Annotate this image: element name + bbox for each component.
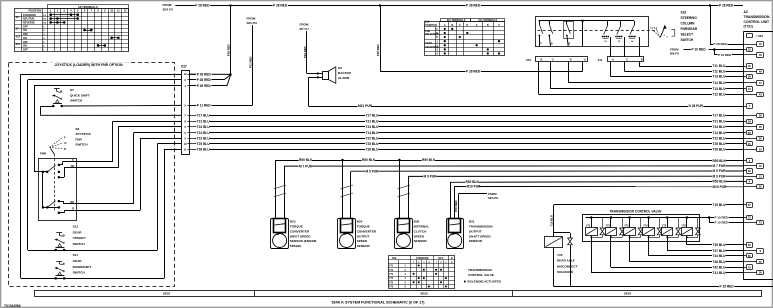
switch S7 quick shift	[54, 88, 60, 90]
svg-text:Y71: Y71	[389, 266, 394, 268]
svg-text:SE22: SE22	[163, 292, 171, 296]
TCU pin 9	[743, 250, 757, 252]
svg-text:SOLENOID: SOLENOID	[557, 270, 574, 274]
svg-text:SWITCH: SWITCH	[73, 242, 86, 246]
svg-text:ON: ON	[23, 37, 27, 40]
svg-text:REVERSE: REVERSE	[23, 22, 35, 25]
svg-text:T25 BLU: T25 BLU	[366, 142, 380, 146]
wire S11 to X27 pin 11	[164, 149, 166, 278]
junction R50 B30	[398, 159, 401, 162]
S19 common bus	[539, 20, 634, 22]
wire P28 RED to X10-A	[380, 71, 583, 73]
svg-text:Y75: Y75	[662, 224, 667, 227]
wire P45 RED from B21 to SE5 PH	[458, 194, 460, 219]
svg-text:T13 BLU: T13 BLU	[713, 75, 727, 79]
svg-text:H3: H3	[338, 66, 342, 70]
svg-text:SPEED): SPEED)	[290, 244, 302, 248]
solenoid Y73	[628, 216, 631, 219]
wire T22 BLU X27 to TCU	[195, 138, 743, 140]
wire S8 R to X27 pin 8	[77, 210, 140, 212]
svg-text:JOYSTICK (LOADER) WITH FNR OPT: JOYSTICK (LOADER) WITH FNR OPTION	[54, 63, 123, 67]
svg-text:TRANSMISSION CONTROL VALVE: TRANSMISSION CONTROL VALVE	[609, 209, 661, 213]
svg-text:T17 BLU: T17 BLU	[197, 114, 211, 118]
svg-text:DISCONNECT: DISCONNECT	[557, 264, 578, 268]
connector X27	[182, 71, 190, 155]
wire Y74 output	[648, 238, 650, 256]
wire R50 BLK sensor ground bus	[275, 160, 277, 219]
switch S19 box	[536, 17, 649, 47]
wire R50 BLK from B21	[450, 182, 452, 219]
svg-text:SELECT: SELECT	[681, 33, 694, 37]
table S8 contact dots	[51, 14, 78, 16]
svg-text:R50 BLK: R50 BLK	[422, 158, 436, 162]
svg-text:GEAR: GEAR	[425, 42, 432, 45]
svg-text:P28 RED: P28 RED	[227, 44, 231, 56]
TCU pin 70	[743, 267, 746, 269]
switch S12 gear upshift	[56, 232, 62, 234]
wire P28 RED feed to FNR switch (X27 pin 1)	[34, 85, 181, 87]
svg-text:M31 PUR: M31 PUR	[358, 104, 373, 108]
svg-text:TORQUE: TORQUE	[290, 225, 303, 229]
wire T25 BLU X27 to TCU	[195, 143, 743, 145]
svg-text:S11: S11	[73, 253, 79, 257]
svg-text:Y72: Y72	[606, 224, 611, 227]
TCU pin 43	[743, 94, 757, 96]
svg-text:T25 BLU: T25 BLU	[713, 142, 727, 146]
svg-text:Y74: Y74	[389, 277, 394, 280]
svg-text:P28 RED: P28 RED	[376, 44, 380, 56]
svg-text:Y73: Y73	[389, 274, 394, 276]
svg-text:SWITCH: SWITCH	[681, 38, 694, 42]
svg-text:A2: A2	[744, 10, 748, 14]
svg-text:M7 FU: M7 FU	[300, 27, 309, 31]
svg-text:P 28 RED: P 28 RED	[719, 4, 734, 8]
svg-text:S11: S11	[16, 43, 21, 46]
TCU pin 4	[743, 181, 746, 183]
svg-text:12: 12	[184, 72, 187, 76]
TCU pin 19	[743, 165, 757, 167]
svg-text:B21: B21	[469, 220, 475, 224]
svg-text:B: B	[451, 24, 453, 27]
S19 F contact	[539, 20, 541, 22]
svg-text:GEAR: GEAR	[73, 230, 83, 234]
svg-text:GEAR: GEAR	[73, 259, 83, 263]
svg-text:D: D	[466, 24, 468, 27]
TCU pin 63	[743, 244, 746, 246]
svg-text:CONVERTER: CONVERTER	[357, 229, 377, 233]
TCU pin 3	[743, 160, 746, 162]
svg-text:INPUT SPEED: INPUT SPEED	[290, 234, 311, 238]
TCU pin 12	[743, 176, 757, 178]
svg-text:T14 BLU: T14 BLU	[713, 131, 727, 135]
svg-text:T14 BLU: T14 BLU	[713, 81, 727, 85]
wire S11 row	[21, 278, 164, 280]
junction R50 B24	[341, 159, 344, 162]
svg-text:P 15 RED: P 15 RED	[715, 216, 729, 220]
svg-text:B30: B30	[414, 220, 420, 224]
svg-text:B23: B23	[290, 220, 296, 224]
svg-text:OUTPUT: OUTPUT	[469, 229, 482, 233]
svg-text:OFF: OFF	[23, 41, 28, 44]
wire S8 NF to X27 pin 3	[77, 167, 118, 169]
svg-text:T17 BLU: T17 BLU	[713, 114, 727, 118]
svg-text:M 5 PUR: M 5 PUR	[366, 169, 380, 173]
wire M10 PUR from B21	[454, 187, 456, 220]
svg-text:W9 FU: W9 FU	[670, 52, 679, 56]
svg-text:R50 BLK: R50 BLK	[466, 180, 480, 184]
svg-text:POSITION: POSITION	[29, 9, 42, 13]
svg-text:N 28 PUR: N 28 PUR	[689, 104, 704, 108]
svg-text:(TCU): (TCU)	[744, 25, 753, 29]
svg-text:P 28 RED: P 28 RED	[273, 4, 288, 8]
wire S12 row	[28, 250, 157, 252]
backup alarm H3 speaker	[323, 72, 329, 80]
svg-text:SE5 PH: SE5 PH	[488, 196, 498, 200]
svg-text:P 28 RED: P 28 RED	[197, 72, 212, 76]
svg-text:T24 BLU: T24 BLU	[197, 125, 211, 129]
wire M31 PUR alarm return	[309, 77, 323, 79]
wire T14 BLU X27 to TCU	[195, 132, 743, 134]
TCU pin 44	[743, 88, 746, 90]
wire T15 BLU TCU to Y20	[554, 204, 744, 206]
svg-text:T13 BLU: T13 BLU	[713, 87, 727, 91]
svg-text:NR: NR	[70, 201, 74, 204]
S19 R contact with detent box	[564, 22, 574, 39]
wire X11-C T11 BLU	[624, 62, 626, 72]
svg-text:Y71: Y71	[586, 224, 591, 227]
svg-text:P 10 RED: P 10 RED	[718, 53, 732, 57]
TCU pin 67	[743, 204, 746, 206]
svg-text:FNR: FNR	[425, 31, 430, 33]
svg-text:11: 11	[184, 147, 187, 151]
svg-text:X10: X10	[526, 58, 532, 62]
S19 gear contact 2	[620, 21, 622, 26]
S19 gear contact 3	[634, 21, 636, 26]
S19 common drop to X10-A	[581, 20, 584, 23]
svg-text:P 28 RED: P 28 RED	[197, 78, 212, 82]
svg-text:NEUTRAL: NEUTRAL	[23, 18, 35, 21]
svg-text:UPSHIFT: UPSHIFT	[73, 236, 86, 240]
svg-text:T11 BLU: T11 BLU	[713, 64, 726, 68]
svg-text:P 10 RED: P 10 RED	[692, 48, 707, 52]
svg-text:STEERING: STEERING	[681, 16, 698, 20]
svg-text:SE23: SE23	[420, 292, 428, 296]
svg-text:D: D	[570, 59, 572, 62]
svg-text:P 28 RED: P 28 RED	[195, 4, 210, 8]
wire Y76 output	[686, 238, 688, 245]
S19 gear contact 1	[607, 21, 609, 26]
switch S11 gear downshift	[56, 261, 62, 263]
svg-text:OUTPUT: OUTPUT	[357, 234, 370, 238]
svg-text:S12: S12	[16, 35, 21, 38]
svg-text:DOWNSHIFT: DOWNSHIFT	[73, 265, 92, 269]
svg-text:M 5 PUR: M 5 PUR	[713, 169, 727, 173]
svg-text:BACKUP: BACKUP	[338, 71, 351, 75]
svg-text:P 28 RED: P 28 RED	[197, 84, 212, 88]
svg-text:M 9 PUR: M 9 PUR	[713, 174, 727, 178]
svg-text:T24 BLU: T24 BLU	[713, 125, 727, 129]
svg-text:A: A	[584, 59, 586, 62]
svg-text:T47 BLU: T47 BLU	[713, 249, 727, 253]
junction P28 to X27	[229, 4, 232, 7]
svg-text:OFF: OFF	[23, 49, 28, 52]
svg-text:M10 PUR: M10 PUR	[713, 185, 728, 189]
svg-text:P 11 RED: P 11 RED	[197, 103, 212, 107]
svg-text:A: A	[476, 24, 478, 27]
svg-text:S12: S12	[73, 225, 79, 229]
table S19 contact dots	[444, 28, 446, 30]
svg-text:T15 BLU: T15 BLU	[550, 215, 554, 226]
solenoid Y75	[666, 216, 669, 219]
svg-text:ALARM: ALARM	[338, 76, 350, 80]
svg-text:R: R	[72, 207, 74, 210]
TCU pin 25	[743, 49, 746, 51]
svg-text:T22 BLU: T22 BLU	[197, 136, 211, 140]
wire M9 PUR from B30	[408, 176, 410, 219]
svg-text:TRANSMISSION: TRANSMISSION	[469, 225, 493, 229]
svg-text:P11 RED: P11 RED	[248, 56, 252, 68]
svg-text:Y75: Y75	[389, 282, 394, 284]
svg-text:N: N	[551, 42, 553, 45]
svg-text:T12 BLU: T12 BLU	[713, 93, 727, 97]
wire P28 RED feed to S11 (X27 pin 12)	[21, 74, 181, 76]
svg-text:FNR: FNR	[75, 137, 82, 141]
sensor B24 torque converter output speed	[338, 219, 356, 249]
svg-text:10: 10	[184, 142, 187, 146]
svg-text:M 7 PUR: M 7 PUR	[713, 164, 727, 168]
wire T21 BLU X27 to TCU	[195, 121, 743, 123]
svg-text:OFF: OFF	[23, 25, 28, 28]
svg-text:B: B	[487, 24, 489, 27]
wire P15 RED solenoid return	[554, 286, 773, 288]
TCU pin 55	[743, 138, 757, 140]
wire T26 BLU X27 to TCU	[195, 149, 743, 151]
TCU pin 52	[743, 186, 757, 188]
svg-text:C: C	[498, 24, 500, 27]
wire P28 RED feed to S12 (X27 pin 9)	[28, 79, 181, 81]
svg-text:T21 BLU: T21 BLU	[197, 119, 211, 123]
svg-text:P 15 RED: P 15 RED	[720, 285, 735, 289]
S8 common bus	[42, 172, 44, 208]
wire S7 to X27 pin 7 (T11)	[40, 106, 53, 108]
TCU pin 7	[743, 106, 746, 108]
solenoid Y20 rear axle disconnect	[554, 232, 570, 234]
TCU A2 outline bracket	[743, 31, 773, 33]
svg-text:REV: REV	[439, 257, 444, 260]
S8 neutral contact jog	[59, 177, 64, 179]
twisted pair marks B30	[397, 185, 410, 189]
svg-text:M 9 PUR: M 9 PUR	[424, 175, 438, 179]
wire Y72 output	[610, 238, 612, 268]
svg-text:Y76: Y76	[681, 224, 686, 227]
wire Y71 output	[591, 238, 593, 273]
svg-text:P 15 RED: P 15 RED	[715, 221, 729, 225]
svg-text:P45 RED: P45 RED	[454, 200, 458, 212]
wire P28 RED top bus	[175, 5, 743, 7]
svg-text:SELECTION: SELECTION	[425, 34, 438, 36]
svg-text:TRANSMISSION: TRANSMISSION	[468, 268, 492, 272]
svg-text:R50 BLK: R50 BLK	[713, 180, 727, 184]
svg-text:SWITCH: SWITCH	[75, 143, 88, 147]
svg-text:SENSOR: SENSOR	[469, 239, 483, 243]
svg-text:SOL: SOL	[392, 257, 397, 260]
TCU pin 48	[743, 54, 757, 56]
svg-text:C: C	[552, 59, 554, 62]
svg-text:C: C	[626, 59, 628, 62]
solenoid Y74	[647, 216, 650, 219]
wire P11 RED to X27 pin 2	[252, 25, 254, 105]
TCU pin 36	[743, 272, 757, 274]
svg-text:S7: S7	[70, 88, 74, 92]
svg-text:TX1024586: TX1024586	[4, 304, 21, 308]
svg-text:FORWARD: FORWARD	[23, 14, 36, 17]
wire P28 RED to TCU pin	[710, 44, 743, 46]
svg-text:T22 BLU: T22 BLU	[366, 136, 380, 140]
svg-text:QUICK SHIFT: QUICK SHIFT	[70, 93, 90, 97]
sensor B23 torque converter input speed	[271, 219, 289, 249]
wire Y73 output	[629, 238, 631, 262]
wire S7 to X27 pin 2	[62, 104, 182, 107]
S8 forward contact	[43, 171, 47, 173]
sensor B30 internal clutch speed	[395, 219, 413, 249]
svg-text:R: R	[569, 42, 571, 45]
svg-text:T17 BLU: T17 BLU	[366, 114, 380, 118]
wire S12 to X27 pin 10	[157, 144, 159, 250]
solenoid Y72	[610, 216, 613, 219]
svg-text:SPEED: SPEED	[414, 234, 425, 238]
TCU pin 21	[743, 143, 746, 145]
junction P28 to S19 switch	[379, 4, 382, 7]
svg-text:P 28 RED: P 28 RED	[714, 42, 728, 46]
S19 mechanical dashed link	[538, 30, 658, 32]
svg-text:B24: B24	[357, 220, 363, 224]
svg-text:SELECTION: SELECTION	[425, 47, 438, 49]
svg-text:A: A	[612, 59, 614, 62]
svg-text:TORQUE: TORQUE	[357, 225, 370, 229]
svg-text:R50 BLK: R50 BLK	[713, 159, 727, 163]
svg-text:S8: S8	[75, 127, 79, 131]
TCU pin 72	[743, 217, 746, 219]
TCU pin 29	[743, 121, 746, 123]
svg-text:SWITCH: SWITCH	[73, 271, 86, 275]
svg-text:M10 PUR: M10 PUR	[467, 185, 482, 189]
svg-text:POSITION: POSITION	[425, 24, 437, 27]
wire X10-B T12 BLU	[538, 62, 540, 95]
svg-text:SENSOR: SENSOR	[414, 239, 428, 243]
wire M7 PUR from B23	[284, 166, 286, 219]
svg-text:T15 BLU: T15 BLU	[713, 203, 727, 207]
svg-text:REAR AXLE: REAR AXLE	[557, 259, 575, 263]
wire S8 NR to X27 pin 5	[77, 203, 134, 205]
solenoid Y76	[686, 216, 689, 219]
svg-text:T25 BLU: T25 BLU	[197, 142, 211, 146]
svg-text:T26 BLU: T26 BLU	[713, 147, 727, 151]
svg-text:R: R	[64, 147, 66, 151]
TCU pin 50	[743, 115, 757, 117]
TCU pin 28	[743, 76, 746, 78]
svg-text:T46 BLU: T46 BLU	[713, 260, 727, 264]
svg-text:ON: ON	[23, 45, 27, 48]
wire P23 RED to alarm	[306, 31, 308, 74]
svg-text:P 28 RED: P 28 RED	[466, 4, 481, 8]
svg-text:SE24: SE24	[624, 292, 632, 296]
svg-text:T44 BLU: T44 BLU	[713, 254, 727, 258]
twisted pair marks B24	[341, 185, 354, 189]
wire X11-B T11 BLU	[639, 62, 641, 67]
svg-text:S19: S19	[681, 11, 687, 15]
svg-text:T11 BLU: T11 BLU	[713, 70, 726, 74]
TCU pin 73	[743, 222, 757, 224]
TCU pin 33	[743, 149, 757, 151]
svg-text:SHAFT SPEED: SHAFT SPEED	[469, 234, 491, 238]
svg-text:T42 BLU: T42 BLU	[713, 265, 727, 269]
wire T24 BLU X27 to TCU	[195, 126, 743, 128]
wire S8 F to X27 pin 6	[77, 161, 113, 163]
joystick (loader) enclosure dashed box	[9, 63, 175, 287]
svg-text:X27: X27	[181, 64, 187, 68]
svg-text:B: B	[541, 59, 543, 62]
wire X10-D T14 BLU	[568, 62, 570, 84]
svg-text:T21 BLU: T21 BLU	[366, 119, 380, 123]
table S8 terminals header	[48, 5, 129, 9]
svg-text:N: N	[451, 257, 453, 260]
wire P28 RED into X27 pins 12/9/1	[189, 73, 230, 75]
svg-text:T26 BLU: T26 BLU	[366, 147, 380, 151]
section bar	[35, 291, 762, 297]
svg-text:B: B	[641, 59, 643, 62]
table solenoid states	[389, 256, 455, 289]
TCU pin 58	[743, 132, 746, 134]
svg-text:Y72: Y72	[389, 270, 394, 272]
TCU pin 66	[743, 255, 746, 257]
svg-text:TRANSMISSION: TRANSMISSION	[744, 15, 771, 19]
transmission control valve box	[583, 215, 700, 242]
svg-text:FNR: FNR	[40, 152, 47, 156]
svg-text:SENSOR: SENSOR	[357, 244, 371, 248]
junction P28 to TCU	[709, 4, 712, 7]
wire M5 PUR from B24	[350, 171, 352, 219]
svg-text:T24 BLU: T24 BLU	[366, 125, 380, 129]
svg-text:SE4 FU: SE4 FU	[163, 7, 174, 11]
wire T17 BLU X27 to TCU	[195, 115, 743, 117]
svg-text:P23 RED: P23 RED	[303, 46, 307, 58]
wire X11-A T13 BLU	[610, 62, 612, 77]
svg-text:A: A	[444, 24, 446, 27]
TCU pin 47	[743, 82, 757, 84]
svg-text:T26 BLU: T26 BLU	[197, 147, 211, 151]
wire Y75 output	[667, 238, 669, 251]
switch S8 contact box	[39, 159, 77, 221]
svg-text:FNR/GEAR: FNR/GEAR	[681, 27, 698, 31]
svg-text:CONTROL VALVE: CONTROL VALVE	[468, 273, 494, 277]
svg-text:COLUMN: COLUMN	[681, 22, 696, 26]
TCU connector legend = X23	[747, 34, 753, 38]
wire P10 RED branch	[714, 49, 743, 51]
svg-text:CLUTCH: CLUTCH	[414, 229, 427, 233]
svg-text:524K K SYSTEM FUNCTIONAL SCHEM: 524K K SYSTEM FUNCTIONAL SCHEMATIC (6 OF…	[331, 300, 425, 304]
svg-text:JOYSTICK: JOYSTICK	[75, 132, 91, 136]
svg-text:P 28 RED: P 28 RED	[466, 70, 481, 74]
svg-text:R50 BLK: R50 BLK	[299, 158, 313, 162]
wire X10-C T13 BLU	[550, 62, 552, 90]
TCV P15 RED supply bus	[586, 217, 710, 219]
TCU pin 46	[743, 66, 746, 68]
solenoid Y71	[590, 216, 593, 219]
svg-text:SWITCH: SWITCH	[70, 99, 83, 103]
table S8 grid	[15, 9, 129, 52]
svg-text:Y76: Y76	[389, 287, 394, 289]
svg-text:ON: ON	[23, 29, 27, 32]
